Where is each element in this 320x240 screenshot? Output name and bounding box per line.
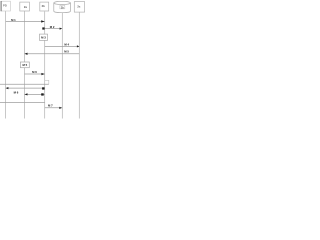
svg-text:M 4: M 4 <box>64 42 69 46</box>
svg-text:M 6: M 6 <box>32 70 37 74</box>
svg-text:M 5: M 5 <box>23 63 28 67</box>
svg-text:M 7: M 7 <box>48 104 53 108</box>
svg-text:M 3: M 3 <box>41 35 46 39</box>
svg-text:M 6: M 6 <box>14 91 19 95</box>
svg-text:2b: 2b <box>61 6 64 9</box>
svg-text:M 1: M 1 <box>11 18 16 22</box>
svg-text:M 2: M 2 <box>50 25 55 29</box>
svg-text:M 5: M 5 <box>64 50 69 54</box>
